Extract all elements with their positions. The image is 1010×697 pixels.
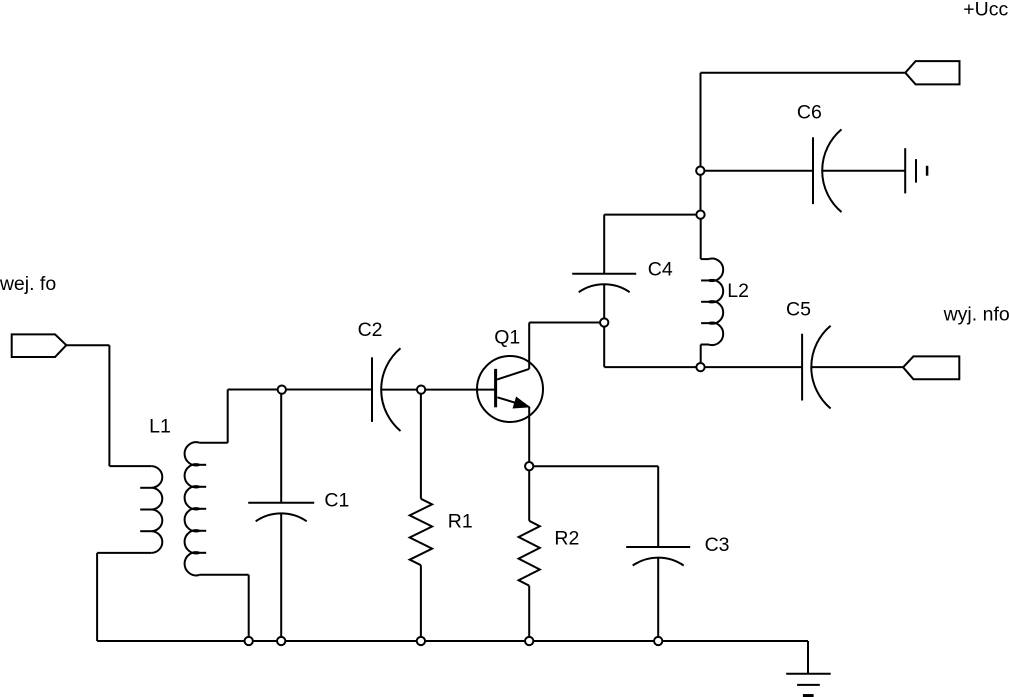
wire collector vertical [528,323,530,369]
wire +Ucc vertical down to tank top [700,73,702,215]
svg-text:C6: C6 [797,102,822,124]
wire ground rail [97,640,808,642]
wire input vertical [108,345,110,466]
connector wyj. nfo (output tag) [903,356,959,379]
node rail R1 [417,637,425,645]
svg-text:C2: C2 [358,319,383,341]
node emitter [525,462,533,470]
wire emitter node to R2 [528,466,530,521]
node collector tap [600,318,608,326]
svg-text:C1: C1 [324,490,349,512]
svg-text:L1: L1 [149,415,171,437]
wire R1 to ground rail [420,565,422,641]
resistor R2 [519,521,540,586]
wire emitter node to C3 branch [529,465,658,467]
wire node to C6 plate [701,170,814,172]
svg-text:R1: R1 [448,511,473,533]
connector wej. fo (input tag) [12,334,67,357]
capacitor C5 [801,334,803,401]
wire base node down to R1 [420,390,422,499]
wire C3 to ground rail [657,558,659,641]
wire C6 to ground [822,170,905,172]
wire R2 to ground rail [528,586,530,641]
capacitor C1 [248,502,314,504]
wire tank bottom horizontal [604,366,700,368]
wire C2 to Q1 base [381,389,495,391]
inductor L2 [700,215,702,260]
svg-text:L2: L2 [727,280,749,302]
transistor Q1 [477,356,543,422]
wire base net left of C2 [228,389,372,391]
ground (right of C6, rotated) [904,148,906,193]
node rail R2 [525,637,533,645]
connector +Ucc (power tag, top right) [905,61,959,84]
wire emitter down [528,407,530,466]
inductor L1 primary winding [109,465,151,467]
svg-text:wyj. nfo: wyj. nfo [943,303,1010,325]
wire tank to C5 plate [701,366,803,368]
svg-text:C5: C5 [786,298,811,320]
node rail C1 [277,637,285,645]
capacitor C6 [812,137,814,204]
wire collector to C4 branch [529,322,604,324]
wire rail to ground symbol [807,641,809,674]
inductor L1 secondary winding [227,390,229,443]
svg-text:wej. fo: wej. fo [0,273,56,295]
svg-text:R2: R2 [554,528,579,550]
svg-text:Q1: Q1 [494,326,520,348]
wire base node down to C1 [280,390,282,503]
capacitor C4 [572,273,636,275]
wire +Ucc horizontal [701,72,906,74]
capacitor C2 [371,357,373,422]
node rail L1 [245,637,253,645]
node C6 tap [696,167,704,175]
wire down to C3 [657,466,659,547]
node tank top [696,210,704,218]
wire input horizontal [66,344,109,346]
resistor R1 [410,499,432,565]
node base/C1 [278,385,286,393]
ground (bottom right) [786,673,831,675]
svg-text:C3: C3 [705,534,730,556]
wire C5 to output connector [811,366,903,368]
node base/R1 [417,385,425,393]
svg-text:C4: C4 [648,259,673,281]
capacitor C3 [626,546,690,548]
svg-text:+Ucc: +Ucc [963,0,1008,21]
wire down to C4 plate [603,215,605,274]
node rail C3 [654,637,662,645]
wire tank top horizontal [604,214,700,216]
node tank bottom [696,363,704,371]
wire C1 to ground rail [280,513,282,641]
wire C4 arc down to tank bottom [603,284,605,367]
